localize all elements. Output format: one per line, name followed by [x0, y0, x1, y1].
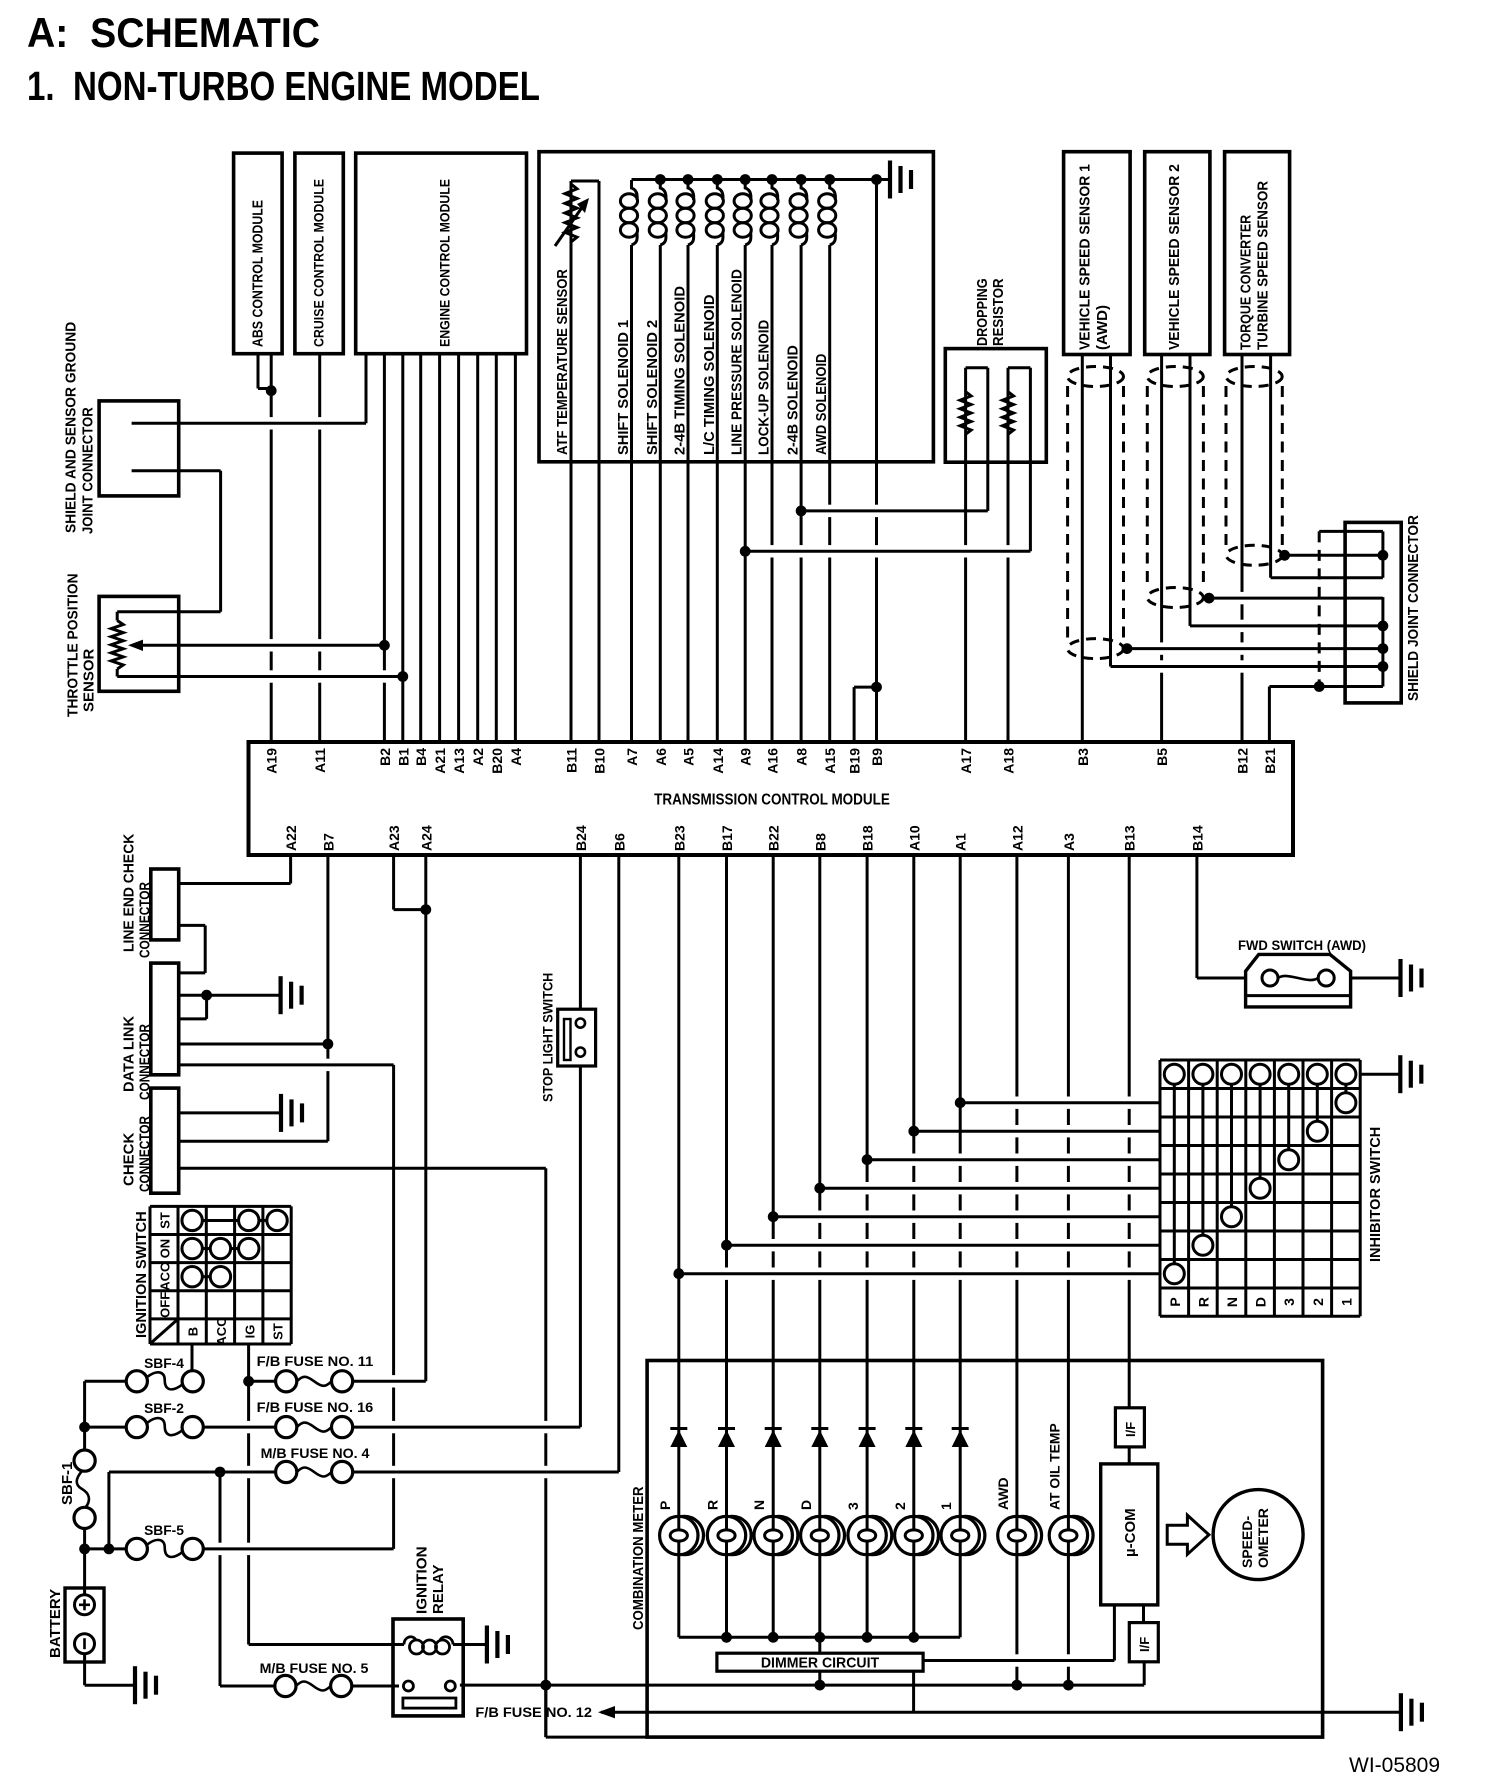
wire lamp D lower: [818, 1555, 821, 1638]
svg-text:B8: B8: [812, 833, 828, 851]
wire line end check pin2: [179, 924, 206, 927]
svg-text:A23: A23: [386, 825, 402, 851]
wire A2 (engine): [476, 354, 479, 743]
wire VSS2 pin2: [1189, 355, 1192, 626]
junction joint bus / VSS2 pin2: [1378, 621, 1389, 632]
ground G2 data link: [281, 976, 302, 1014]
fuse M/B FUSE NO. 5: [275, 1675, 296, 1696]
wire lamp bus: [679, 1636, 960, 1639]
svg-text:ABS CONTROL MODULE: ABS CONTROL MODULE: [251, 200, 267, 347]
svg-text:F/B FUSE NO. 12: F/B FUSE NO. 12: [475, 1705, 592, 1720]
svg-text:1. NON-TURBO ENGINE MODEL: 1. NON-TURBO ENGINE MODEL: [27, 63, 540, 109]
svg-text:3: 3: [1281, 1298, 1297, 1306]
throttle position sensor box: [99, 596, 179, 691]
wire B3 (VSS1 pin1): [1081, 355, 1084, 743]
FWD switch contacts: [1262, 970, 1278, 986]
svg-text:B13: B13: [1122, 825, 1138, 851]
svg-text:OFF: OFF: [158, 1292, 173, 1318]
svg-text:2-4B SOLENOID: 2-4B SOLENOID: [785, 345, 802, 455]
wire SBF-2 feed: [85, 1426, 127, 1429]
svg-text:SBF-5: SBF-5: [144, 1523, 184, 1538]
svg-text:B12: B12: [1235, 748, 1251, 774]
svg-text:B19: B19: [847, 748, 863, 774]
solenoid coil L8 AWD SOLENOID: [830, 180, 836, 200]
wire data link pin3: [179, 1017, 207, 1020]
wire A1 / lamp 1: [959, 855, 962, 1517]
check connector box: [151, 1088, 179, 1193]
wire inhibitor row 2: [914, 1130, 1160, 1133]
wire torque shield to joint connector: [1285, 554, 1383, 557]
svg-text:CRUISE CONTROL MODULE: CRUISE CONTROL MODULE: [312, 179, 328, 347]
junction B18 / inhibitor 3: [862, 1154, 873, 1165]
wire battery minus drop: [83, 1653, 86, 1685]
wire B19 jog: [853, 687, 856, 742]
I/F box lower: [1129, 1623, 1158, 1662]
svg-text:ON: ON: [158, 1239, 173, 1259]
wire SBF-4/2 left link: [83, 1381, 86, 1450]
junction B17 / inhibitor R: [721, 1240, 732, 1251]
svg-text:SBF-1: SBF-1: [59, 1462, 76, 1505]
throttle position sensor potentiometer: [116, 612, 119, 621]
wire A9 (solenoid): [744, 245, 747, 742]
svg-text:A3: A3: [1061, 833, 1077, 851]
wire M/B fuse 5 feed: [220, 1685, 275, 1688]
svg-text:SHIELD JOINT CONNECTOR: SHIELD JOINT CONNECTOR: [1405, 515, 1422, 701]
wire lamp 2 lower: [912, 1555, 915, 1638]
wire A13 (engine): [457, 354, 460, 743]
wire SBF-5 output: [203, 1547, 393, 1550]
u-COM output arrow: [1167, 1515, 1209, 1554]
wire SBF-5 feed: [109, 1547, 126, 1550]
svg-text:DATA LINK: DATA LINK: [121, 1016, 138, 1092]
shield dashed VSS2 left: [1146, 386, 1149, 588]
svg-text:CONNECTOR: CONNECTOR: [137, 882, 154, 958]
wire shield joint bus lower: [1381, 597, 1384, 686]
wire solenoid ground bus: [632, 178, 891, 181]
stop light switch actuator: [564, 1019, 571, 1060]
wire inhibitor row R: [727, 1244, 1161, 1247]
junction M/B fuse 4/5 feed: [215, 1467, 226, 1478]
junction bus ground drain: [871, 174, 882, 185]
dropping resistor R1: [960, 392, 971, 435]
battery box: [65, 1588, 104, 1662]
TPS wiper arrowhead: [128, 640, 143, 651]
svg-text:A: SCHEMATIC: A: SCHEMATIC: [27, 9, 320, 56]
ground G8 combination meter: [1401, 1693, 1422, 1731]
wire dropping resistor 2 right leg: [1029, 368, 1032, 552]
wire B19 to B9 link: [854, 686, 876, 689]
svg-text:LOCK-UP SOLENOID: LOCK-UP SOLENOID: [756, 320, 773, 455]
wire battery minus to ground: [85, 1684, 135, 1687]
fuse F/B FUSE NO. 16: [276, 1417, 297, 1438]
svg-text:ATF TEMPERATURE SENSOR: ATF TEMPERATURE SENSOR: [554, 269, 571, 455]
wire dropping resistor 1 bracket: [966, 366, 988, 369]
junction B8 / inhibitor D: [814, 1183, 825, 1194]
svg-text:A16: A16: [765, 748, 781, 774]
svg-text:CONNECTOR: CONNECTOR: [137, 1116, 154, 1192]
wire B11 (ATF sensor): [570, 181, 573, 742]
svg-text:B22: B22: [766, 825, 782, 851]
fuse SBF-4: [126, 1371, 147, 1392]
wire line-end to data-link jog: [204, 925, 207, 973]
wire F/B fuse 16 to B24: [353, 1426, 581, 1429]
svg-text:TORQUE CONVERTER: TORQUE CONVERTER: [1238, 215, 1255, 350]
wire A22 to line end check connector: [179, 882, 291, 885]
wire shield to TPS drop: [219, 471, 222, 612]
stop light switch box: [558, 1009, 596, 1066]
svg-text:B7: B7: [320, 833, 336, 851]
wire SBF-4 to ignition B: [192, 1380, 203, 1383]
wire ignition B column: [191, 1344, 194, 1371]
shield joint connector box: [1345, 522, 1401, 703]
svg-text:SBF-4: SBF-4: [144, 1356, 184, 1371]
junction data link ground: [201, 990, 212, 1001]
svg-text:AWD: AWD: [995, 1477, 1011, 1510]
wire F/B fuse 12 line: [601, 1711, 1401, 1714]
junction joint bus / VSS1 shield: [1378, 643, 1389, 654]
wire relay output line: [460, 1684, 1144, 1687]
wire check/meter bottom riser: [544, 1685, 547, 1737]
wire B2 (engine): [383, 354, 386, 743]
combination meter box: [647, 1361, 1323, 1738]
svg-text:B17: B17: [719, 825, 735, 851]
junction lamp N / bus: [768, 1632, 779, 1643]
wire crossover gaps: [267, 417, 275, 429]
wire VSS2 shield to joint connector: [1209, 597, 1383, 600]
shield dashed torque left: [1225, 386, 1228, 546]
line end check connector box: [151, 869, 179, 940]
wire B21 to joint connector: [1269, 685, 1383, 688]
data link connector box: [151, 963, 179, 1075]
wire A23 to A24 jog: [394, 908, 426, 911]
svg-text:A22: A22: [283, 825, 299, 851]
wire inhibitor common to ground: [1360, 1073, 1400, 1076]
ATF temperature sensor (variable resistor): [565, 184, 577, 242]
svg-text:D: D: [798, 1500, 814, 1510]
junction A1 / inhibitor 1: [955, 1097, 966, 1108]
wire lamp 3 lower: [866, 1555, 869, 1638]
wire data link ground jog: [205, 995, 208, 1019]
junction lamp D / bus: [814, 1632, 825, 1643]
junction bus L6: [767, 174, 778, 185]
junction battery / SBF-5: [79, 1544, 90, 1555]
cruise control module box: [295, 153, 343, 354]
junction bus L5: [740, 174, 751, 185]
fuse M/B FUSE NO. 4: [276, 1461, 297, 1482]
junction B23 / inhibitor P: [673, 1268, 684, 1279]
svg-text:B11: B11: [564, 748, 580, 773]
svg-text:OMETER: OMETER: [1255, 1508, 1271, 1568]
ABS control module box: [234, 153, 283, 354]
wire MB4-MB5 link: [219, 1472, 222, 1686]
junction bus L3: [683, 174, 694, 185]
svg-text:B6: B6: [611, 833, 627, 851]
svg-text:IGNITION: IGNITION: [414, 1546, 431, 1614]
junction check pin3 / relay line: [540, 1680, 551, 1691]
svg-text:B4: B4: [413, 748, 429, 766]
wire A3 / lamp AT OIL TEMP: [1067, 855, 1070, 1517]
wire B7: [326, 855, 329, 1141]
wire torque pin2 to joint connector: [1271, 576, 1383, 579]
wire lower I/F to relay line: [1143, 1662, 1146, 1685]
shield oval torque top: [1226, 367, 1282, 387]
wire B24 upper: [579, 855, 582, 1019]
wire B14 to FWD switch: [1197, 977, 1263, 980]
fuse SBF-2: [126, 1417, 147, 1438]
wire ABS pin2 / A19 upper: [270, 354, 273, 391]
svg-text:L/C TIMING SOLENOID: L/C TIMING SOLENOID: [701, 294, 718, 455]
junction A9 / dropping resistor: [740, 546, 751, 557]
junction VSS1 shield drain: [1122, 643, 1133, 654]
svg-text:ACC: ACC: [158, 1262, 173, 1291]
wire dropping resistor 1 right leg: [986, 368, 989, 511]
svg-text:R: R: [1195, 1297, 1211, 1307]
svg-text:N: N: [751, 1500, 767, 1510]
wire bottom line to meter: [546, 1736, 647, 1739]
stop light switch contacts: [576, 1019, 585, 1028]
wire inhibitor row D: [820, 1187, 1160, 1190]
svg-text:ST: ST: [158, 1212, 173, 1229]
wire B20 (engine): [495, 354, 498, 743]
wire A23: [392, 855, 395, 910]
wire relay coil feed: [249, 1643, 404, 1646]
wire A7 (solenoid): [630, 245, 633, 742]
solenoid coil L5 LINE PRESSURE SOLENOID: [745, 180, 751, 200]
svg-text:STOP LIGHT SWITCH: STOP LIGHT SWITCH: [541, 973, 556, 1102]
svg-text:FWD SWITCH (AWD): FWD SWITCH (AWD): [1238, 938, 1366, 954]
wire inhibitor row 1: [960, 1101, 1160, 1104]
wire A9 to dropping resistor: [745, 550, 1030, 553]
svg-text:A21: A21: [432, 748, 448, 774]
dimmer circuit box: [717, 1653, 923, 1671]
vehicle speed sensor 2 box: [1145, 152, 1210, 355]
svg-text:INHIBITOR SWITCH: INHIBITOR SWITCH: [1367, 1127, 1384, 1262]
wire A21 (engine): [438, 354, 441, 743]
shield dashed drain to B21: [1318, 531, 1321, 686]
svg-text:A9: A9: [738, 748, 754, 766]
svg-text:(AWD): (AWD): [1094, 305, 1111, 350]
svg-text:LINE END CHECK: LINE END CHECK: [121, 834, 138, 952]
wire inhibitor row 3: [867, 1158, 1160, 1161]
fuse SBF-1 (vertical): [74, 1450, 95, 1471]
svg-text:BATTERY: BATTERY: [47, 1589, 64, 1658]
ignition relay box: [393, 1619, 463, 1716]
svg-text:A17: A17: [958, 748, 974, 774]
wire A19: [270, 391, 273, 742]
svg-text:TURBINE SPEED SENSOR: TURBINE SPEED SENSOR: [1255, 181, 1272, 350]
svg-text:B9: B9: [869, 748, 885, 766]
shield dashed VSS2 right: [1202, 386, 1205, 588]
wire B14: [1195, 855, 1198, 978]
solenoid coil L2 SHIFT SOLENOID 2: [660, 180, 666, 200]
junction A23/A24: [420, 904, 431, 915]
wire MB4 feed riser: [107, 1472, 110, 1549]
junction bus L4: [712, 174, 723, 185]
svg-text:VEHICLE SPEED SENSOR 2: VEHICLE SPEED SENSOR 2: [1166, 164, 1183, 350]
wire A10 / lamp 2: [912, 855, 915, 1517]
wire data link pin5: [179, 1063, 394, 1066]
wire B8 / lamp D: [818, 855, 821, 1517]
shield oval VSS2 top: [1147, 367, 1203, 387]
svg-text:AWD SOLENOID: AWD SOLENOID: [813, 353, 830, 455]
junction lamp 2 / bus: [908, 1632, 919, 1643]
shield oval VSS2 bottom: [1147, 588, 1203, 608]
solenoid assembly box: [539, 152, 933, 462]
svg-text:B20: B20: [489, 748, 505, 774]
wire data link pin4 to B7: [179, 1043, 328, 1046]
u-COM box: [1101, 1464, 1158, 1605]
svg-text:ACC: ACC: [214, 1317, 229, 1346]
solenoid coil L4 L/C TIMING SOLENOID: [717, 180, 723, 200]
svg-text:A2: A2: [470, 748, 486, 766]
svg-text:N: N: [1224, 1297, 1240, 1307]
inhibitor switch contacts: [1164, 1064, 1184, 1084]
junction TPS low / B1: [397, 671, 408, 682]
wire A17 (dropping resistor 1): [964, 368, 967, 742]
shield oval VSS1 top: [1068, 367, 1124, 387]
wire ignition IG column / relay coil feed: [247, 1344, 250, 1645]
svg-text:R: R: [705, 1500, 721, 1510]
solenoid coil L3 2-4B TIMING SOLENOID: [688, 180, 694, 200]
svg-text:DIMMER CIRCUIT: DIMMER CIRCUIT: [761, 1655, 879, 1672]
junction B22 / inhibitor N: [768, 1211, 779, 1222]
svg-text:B: B: [186, 1327, 201, 1336]
inhibitor switch grid: [1160, 1060, 1360, 1316]
svg-text:SENSOR: SENSOR: [81, 648, 98, 712]
svg-text:B23: B23: [671, 825, 687, 851]
svg-text:IGNITION SWITCH: IGNITION SWITCH: [133, 1211, 150, 1338]
wire shield joint to engine pin1: [132, 422, 366, 425]
wire lamp P lower: [677, 1555, 680, 1638]
junction IG column / fuse 11: [243, 1376, 254, 1387]
svg-text:COMBINATION METER: COMBINATION METER: [630, 1486, 647, 1630]
junction bus L8: [824, 174, 835, 185]
wire A8 to dropping resistor: [801, 509, 988, 512]
ground G5 battery: [135, 1666, 156, 1704]
dropping resistor R2: [1003, 392, 1014, 435]
svg-text:A18: A18: [1001, 748, 1017, 774]
svg-text:LINE PRESSURE SOLENOID: LINE PRESSURE SOLENOID: [729, 269, 746, 455]
indicator lamps: [665, 1516, 703, 1554]
wire M/B fuse 5 to relay: [352, 1685, 399, 1688]
junction B21 / shield drain: [1314, 681, 1325, 692]
svg-text:B10: B10: [592, 748, 608, 774]
svg-text:VEHICLE SPEED SENSOR 1: VEHICLE SPEED SENSOR 1: [1077, 164, 1094, 350]
ground G7 inhibitor switch: [1400, 1055, 1421, 1093]
svg-text:TRANSMISSION CONTROL MODULE: TRANSMISSION CONTROL MODULE: [654, 792, 890, 809]
svg-text:SHIFT SOLENOID 2: SHIFT SOLENOID 2: [644, 320, 661, 455]
svg-text:A8: A8: [794, 748, 810, 766]
solenoid coil L7 2-4B SOLENOID: [801, 180, 807, 200]
svg-text:3: 3: [845, 1502, 861, 1510]
wire TPS top feed: [117, 610, 220, 613]
battery negative terminal: [75, 1634, 95, 1654]
solenoid coil L6 LOCK-UP SOLENOID: [772, 180, 778, 200]
svg-text:ENGINE CONTROL MODULE: ENGINE CONTROL MODULE: [438, 179, 454, 347]
shield dashed VSS1 left: [1066, 386, 1069, 639]
wire VSS1 pin2: [1109, 355, 1112, 667]
shield dashed torque right: [1281, 386, 1284, 546]
svg-text:SBF-2: SBF-2: [144, 1401, 184, 1416]
svg-text:µ-COM: µ-COM: [1122, 1508, 1139, 1557]
svg-text:A11: A11: [312, 748, 328, 773]
junction AWD lamp / relay line: [1012, 1680, 1023, 1691]
svg-text:WI-05809: WI-05809: [1349, 1754, 1440, 1777]
ignition switch contacts ST row: [182, 1210, 202, 1230]
ignition switch grid: [150, 1206, 291, 1344]
diodes on lamp feeds: [670, 1427, 687, 1430]
wire A8 (solenoid): [800, 245, 803, 742]
fuse F/B FUSE NO. 11: [276, 1371, 297, 1392]
wire B23 / lamp P: [677, 855, 680, 1517]
wire FWD switch to ground: [1333, 977, 1401, 980]
svg-text:B24: B24: [573, 825, 589, 851]
svg-text:B14: B14: [1189, 825, 1205, 851]
wire TPS wiper arrow: [133, 644, 384, 647]
junction lamp R / bus: [721, 1632, 732, 1643]
svg-text:2: 2: [892, 1502, 908, 1510]
svg-text:SHIELD AND SENSOR GROUND: SHIELD AND SENSOR GROUND: [63, 322, 80, 533]
wire B12 (torque sensor pin1): [1241, 355, 1244, 743]
junction SBF-2 feed: [79, 1422, 90, 1433]
wire inhibitor row P: [679, 1272, 1160, 1275]
svg-text:F/B FUSE NO. 11: F/B FUSE NO. 11: [257, 1354, 374, 1369]
svg-text:CHECK: CHECK: [121, 1132, 138, 1186]
wire TPS bottom to B1: [117, 675, 403, 678]
wire lamp 1 lower: [959, 1555, 962, 1638]
junction SBF-5 / M/B riser: [104, 1544, 115, 1555]
wire F/B fuse 11 feed: [249, 1380, 276, 1383]
wire VSS1 pin2 to joint connector: [1111, 665, 1383, 668]
wire check connector pin2 to B7: [179, 1140, 328, 1143]
svg-text:SHIFT SOLENOID 1: SHIFT SOLENOID 1: [615, 320, 632, 455]
wire A16 (solenoid): [771, 245, 774, 742]
solenoid coil L1 SHIFT SOLENOID 1: [632, 180, 638, 200]
vehicle speed sensor 1 box: [1064, 152, 1131, 355]
svg-text:A1: A1: [953, 833, 969, 851]
junction AT OIL lamp / relay line: [1063, 1680, 1074, 1691]
svg-text:I/F: I/F: [1137, 1637, 1152, 1652]
engine control module box: [356, 153, 527, 354]
junction lamp 3 / bus: [862, 1632, 873, 1643]
wire u-COM to lower I/F: [1142, 1605, 1145, 1623]
wire F/B fuse 11 to A24: [353, 1380, 426, 1383]
wire VSS2 pin2 to joint connector: [1190, 624, 1383, 627]
junction bus L2: [655, 174, 666, 185]
svg-text:IG: IG: [242, 1325, 257, 1339]
wire relay coil to ground: [453, 1643, 487, 1646]
wire VSS1 shield to joint connector: [1124, 647, 1383, 650]
svg-text:F/B FUSE NO. 16: F/B FUSE NO. 16: [257, 1400, 374, 1415]
wire A6 (solenoid): [659, 245, 662, 742]
svg-text:B1: B1: [395, 748, 411, 766]
junction ABS pins to A19: [266, 385, 277, 396]
wire shield joint inner lower: [132, 469, 221, 472]
ignition relay armature bar: [403, 1698, 456, 1708]
shield oval VSS1 bottom: [1068, 639, 1124, 659]
svg-text:1: 1: [938, 1502, 954, 1510]
svg-text:A6: A6: [653, 748, 669, 766]
F/B fuse no12 arrowhead: [598, 1706, 615, 1718]
wire check connector pin1 to ground: [179, 1111, 281, 1114]
wire data link pin5 drop / SBF-5 feed: [392, 1065, 395, 1549]
svg-text:RESISTOR: RESISTOR: [990, 278, 1007, 346]
svg-text:AT OIL TEMP: AT OIL TEMP: [1046, 1423, 1062, 1510]
svg-text:A19: A19: [264, 748, 280, 774]
svg-text:A13: A13: [451, 748, 467, 774]
wire solenoid ground drain / B9: [875, 180, 878, 743]
wire SBF-1 lower link: [83, 1529, 86, 1596]
